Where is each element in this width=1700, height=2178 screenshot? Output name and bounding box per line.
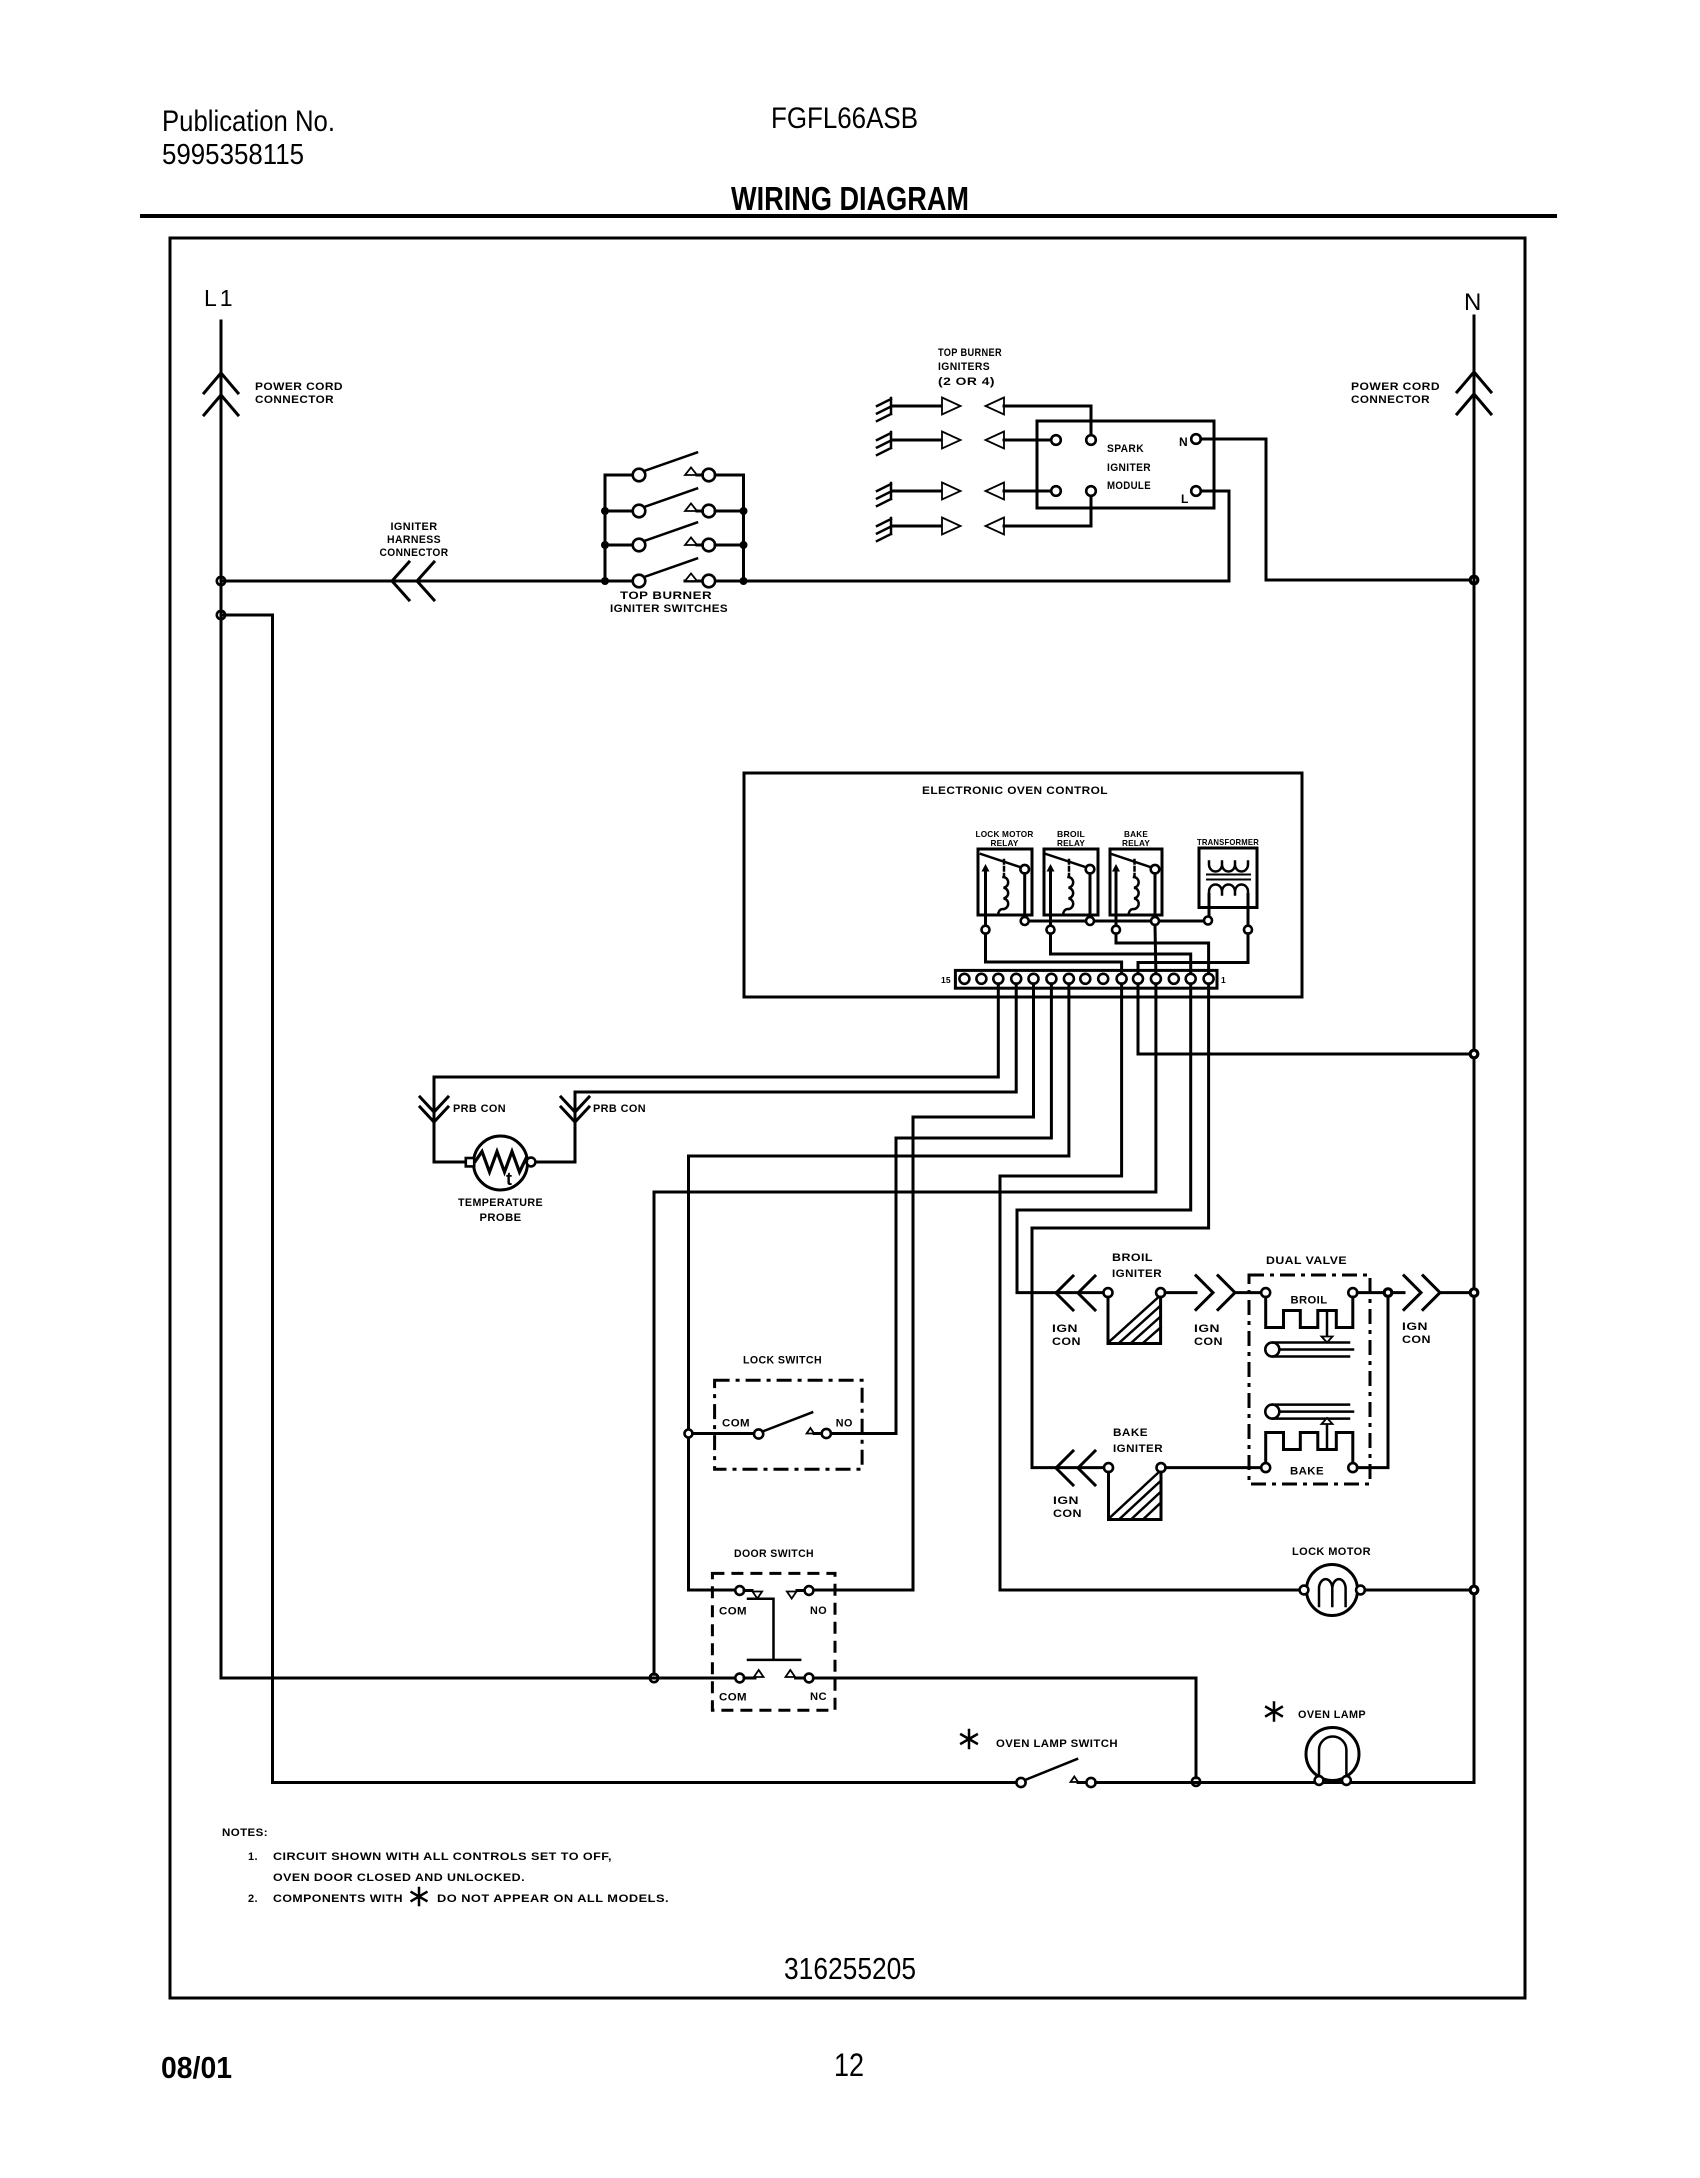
wire: terminal 6 to lock motor (1000, 984, 1300, 1590)
wire: lock motor to N rail (1365, 1589, 1470, 1592)
junction where terminal 4 wire meets L1 bottom wire (650, 1674, 658, 1682)
IGN CON connector chevrons at broil igniter right (1165, 1276, 1235, 1310)
svg-text:IGN: IGN (1194, 1323, 1220, 1335)
svg-text:ELECTRONIC OVEN CONTROL: ELECTRONIC OVEN CONTROL (922, 785, 1108, 797)
junction dot on N rail at terminal 5 wire (1470, 1050, 1478, 1058)
wire: terminal 13 to left probe connector (434, 984, 998, 1159)
svg-text:PROBE: PROBE (480, 1212, 522, 1224)
lock motor M1 (1300, 1565, 1365, 1616)
svg-text:OVEN LAMP: OVEN LAMP (1298, 1709, 1366, 1721)
svg-text:PRB CON: PRB CON (593, 1103, 646, 1115)
svg-text:Publication No.: Publication No. (162, 105, 335, 138)
asterisk for oven lamp (1266, 1703, 1282, 1721)
broil valve actuator arrow (1326, 1311, 1329, 1337)
wire: main top bus from switches to spark module L elbow (685, 491, 1229, 581)
terminal strip pins 15..1 (959, 974, 1213, 984)
junction dot on N rail at valve feed (1470, 1289, 1478, 1297)
spark igniter module pins (1051, 435, 1061, 445)
svg-text:BROIL: BROIL (1112, 1252, 1153, 1264)
wire: bake valve output up to broil output node (1357, 1297, 1388, 1468)
svg-text:COMPONENTS WITH: COMPONENTS WITH (273, 1893, 403, 1905)
igniter harness connector chevrons (392, 562, 434, 600)
svg-text:RELAY: RELAY (1057, 838, 1085, 848)
wire: terminal 4 to L1 bottom wire (654, 984, 1156, 1674)
door switch lower pole COM/NC (735, 1670, 813, 1682)
svg-text:CONNECTOR: CONNECTOR (1351, 394, 1430, 406)
svg-text:2.: 2. (248, 1893, 258, 1905)
svg-text:IGN: IGN (1053, 1495, 1079, 1507)
svg-text:CONNECTOR: CONNECTOR (380, 547, 449, 559)
wire: transformer secondary to terminal 5 (1138, 934, 1248, 974)
N rail vertical wire (1473, 316, 1476, 1783)
relay common bus wire inside EOC (1025, 920, 1208, 923)
svg-text:RELAY: RELAY (1122, 838, 1150, 848)
igniter switch SW2 (row 2) (601, 489, 748, 518)
wire: relay bus to terminal 4 (1154, 925, 1158, 974)
power cord connector (L1 side) chevrons (204, 373, 238, 415)
bake valve body (1265, 1405, 1353, 1419)
wire: module N pin to N rail (1201, 439, 1470, 580)
svg-text:IGNITER: IGNITER (391, 521, 438, 533)
door switch dashed enclosure (712, 1573, 835, 1710)
top burner igniter switches: left rail (604, 475, 607, 581)
IGN CON connector chevrons at bake igniter left (1056, 1451, 1095, 1485)
svg-text:IGN: IGN (1052, 1323, 1078, 1335)
igniter switch SW3 (row 3) (601, 523, 748, 552)
wire: terminal 9 to lock switch COM and door switch COM (689, 984, 1069, 1590)
svg-text:BROIL: BROIL (1291, 1295, 1328, 1307)
svg-text:TRANSFORMER: TRANSFORMER (1197, 837, 1259, 847)
svg-text:08/01: 08/01 (161, 2050, 232, 2085)
svg-text:IGN: IGN (1402, 1321, 1428, 1333)
IGN CON connector chevrons at valve output (1392, 1276, 1470, 1310)
svg-text:IGNITER SWITCHES: IGNITER SWITCHES (610, 603, 728, 615)
lock switch dashed enclosure (715, 1380, 863, 1469)
junction dot on N rail at module feed (1470, 576, 1478, 584)
wire: terminal 1 to bake igniter (1032, 984, 1209, 1468)
svg-text:NC: NC (810, 1691, 827, 1703)
svg-text:OVEN DOOR CLOSED AND UNLOCKED.: OVEN DOOR CLOSED AND UNLOCKED. (273, 1872, 525, 1884)
dual valve dashed enclosure (1249, 1275, 1370, 1484)
svg-text:LOCK SWITCH: LOCK SWITCH (743, 1355, 822, 1367)
diagram border frame (170, 238, 1525, 1998)
wire: lamp-circuit branch from L1 down left side to oven lamp switch line (221, 615, 1017, 1783)
svg-text:DOOR SWITCH: DOOR SWITCH (734, 1548, 814, 1560)
svg-text:316255205: 316255205 (784, 1951, 916, 1986)
svg-text:NO: NO (810, 1605, 827, 1617)
wire: terminal 5 to N rail (1138, 984, 1470, 1054)
title underline rule (140, 214, 1557, 218)
igniter switch SW1 (row 1) (605, 453, 744, 482)
top burner igniter 4 symbol (877, 496, 1091, 541)
svg-text:POWER CORD: POWER CORD (1351, 381, 1440, 393)
svg-text:RELAY: RELAY (991, 838, 1019, 848)
wire: bake igniter to dual valve bake terminal (1166, 1466, 1262, 1469)
PRB CON connector (left) chevrons (420, 1097, 448, 1122)
svg-text:L1: L1 (204, 285, 236, 311)
svg-text:OVEN LAMP SWITCH: OVEN LAMP SWITCH (996, 1738, 1118, 1750)
svg-text:NOTES:: NOTES: (222, 1827, 268, 1839)
wire: door switch NC to oven lamp line (813, 1678, 1196, 1778)
svg-text:NO: NO (836, 1418, 853, 1430)
junction on L1 wire at lamp branch (217, 611, 225, 619)
svg-text:COM: COM (719, 1606, 747, 1618)
bus junction circles (1021, 917, 1029, 925)
dual valve bake terminals (1261, 1463, 1270, 1472)
oven lamp (1306, 1728, 1359, 1785)
svg-text:BAKE: BAKE (1113, 1427, 1148, 1439)
dual valve broil terminals (1261, 1288, 1270, 1297)
lock switch terminals and blade (685, 1412, 831, 1438)
igniter switch SW4 (row 4, on main bus) (601, 559, 748, 588)
broil valve solenoid winding (1266, 1297, 1353, 1327)
wire: main top bus from L1 to igniter switch box (221, 580, 633, 583)
svg-text:COM: COM (719, 1692, 747, 1704)
svg-text:IGNITER: IGNITER (1113, 1443, 1163, 1455)
svg-text:DUAL VALVE: DUAL VALVE (1266, 1255, 1347, 1267)
svg-text:IGNITER: IGNITER (1112, 1268, 1162, 1280)
wire: bake relay coil to terminal 1 (1116, 934, 1209, 974)
svg-text:12: 12 (834, 2047, 864, 2083)
svg-text:PRB CON: PRB CON (453, 1103, 506, 1115)
power cord connector (N side) chevrons (1457, 372, 1491, 414)
transformer T1 (1199, 848, 1257, 926)
junction circle where NC wire meets lamp line (1192, 1778, 1200, 1786)
wire: terminal 11 to door switch NO (814, 984, 1034, 1590)
top burner igniter 2 symbol (877, 432, 1051, 456)
svg-text:FGFL66ASB: FGFL66ASB (771, 102, 918, 135)
relay coil terminal circles (982, 926, 990, 934)
temperature probe RT1 (434, 1136, 575, 1190)
lock motor relay K1 (978, 849, 1032, 926)
svg-text:MODULE: MODULE (1107, 480, 1151, 492)
wire: terminal 10 to lock switch NO (831, 984, 1051, 1434)
svg-text:POWER CORD: POWER CORD (255, 381, 343, 393)
svg-text:t: t (506, 1169, 512, 1189)
broil valve body (1265, 1343, 1353, 1357)
wire: broil valve output to node (1357, 1291, 1384, 1294)
terminal strip shell (955, 970, 1217, 988)
svg-text:WIRING DIAGRAM: WIRING DIAGRAM (731, 180, 969, 217)
svg-text:DO NOT APPEAR ON ALL MODELS.: DO NOT APPEAR ON ALL MODELS. (437, 1893, 669, 1905)
svg-text:1: 1 (1221, 975, 1226, 985)
door switch upper pole COM/NO (735, 1586, 813, 1598)
asterisk for oven lamp switch (961, 1730, 977, 1748)
bake valve solenoid winding (1266, 1433, 1353, 1464)
svg-text:(2 OR 4): (2 OR 4) (938, 376, 995, 388)
svg-text:CON: CON (1194, 1336, 1223, 1348)
IGN CON connector chevrons at broil igniter left (1056, 1276, 1095, 1310)
svg-text:L: L (1181, 492, 1188, 506)
wire: terminal 2 to broil igniter (1017, 984, 1191, 1293)
electronic oven control box (744, 773, 1302, 997)
svg-text:N: N (1464, 289, 1481, 316)
PRB CON connector (right) chevrons (561, 1097, 589, 1122)
broil igniter (1104, 1288, 1166, 1343)
svg-text:N: N (1179, 435, 1188, 449)
svg-text:CIRCUIT SHOWN WITH ALL CONTROL: CIRCUIT SHOWN WITH ALL CONTROLS SET TO O… (273, 1851, 612, 1863)
svg-text:IGNITERS: IGNITERS (938, 361, 990, 373)
svg-text:CON: CON (1052, 1336, 1081, 1348)
svg-text:LOCK MOTOR: LOCK MOTOR (1292, 1546, 1371, 1558)
spark igniter module box U1 (1037, 421, 1214, 508)
svg-text:BAKE: BAKE (1290, 1466, 1324, 1478)
wire: lock relay coil to terminal 6 (986, 934, 1122, 974)
bake igniter (1104, 1463, 1166, 1519)
top burner igniter 1 symbol (877, 398, 1091, 436)
svg-text:CONNECTOR: CONNECTOR (255, 394, 334, 406)
svg-text:SPARK: SPARK (1107, 443, 1144, 455)
svg-text:TOP BURNER: TOP BURNER (938, 347, 1002, 359)
top burner igniter 3 symbol (877, 483, 1051, 507)
oven lamp switch (1016, 1759, 1474, 1787)
svg-text:CON: CON (1053, 1508, 1082, 1520)
broil relay K2 (1044, 849, 1098, 926)
svg-text:HARNESS: HARNESS (387, 534, 441, 546)
top burner igniter switches: right rail (742, 475, 745, 581)
bake valve actuator arrow (1326, 1424, 1329, 1450)
wire: broil relay coil to terminal 2 (1051, 934, 1191, 974)
wire: terminal 12 to right probe connector (575, 984, 1016, 1159)
wire: broil igniter to dual valve broil terminal (1235, 1291, 1261, 1294)
svg-text:TOP BURNER: TOP BURNER (620, 590, 712, 602)
svg-text:1.: 1. (248, 1851, 258, 1863)
bake relay K3 (1110, 849, 1162, 926)
svg-text:COM: COM (722, 1418, 750, 1430)
svg-text:TEMPERATURE: TEMPERATURE (458, 1197, 543, 1209)
junction dot on N rail at lock motor (1470, 1586, 1478, 1594)
svg-text:5995358115: 5995358115 (162, 139, 304, 171)
svg-text:CON: CON (1402, 1334, 1431, 1346)
svg-text:IGNITER: IGNITER (1107, 462, 1151, 474)
door switch actuator tee (748, 1599, 800, 1660)
junction dot at valve output node (1384, 1289, 1392, 1297)
svg-text:15: 15 (941, 975, 951, 985)
junction on L1 wire at main top bus (217, 577, 225, 585)
wire: L1 vertical drop to bottom-left and across to door switch COM (221, 321, 736, 1678)
